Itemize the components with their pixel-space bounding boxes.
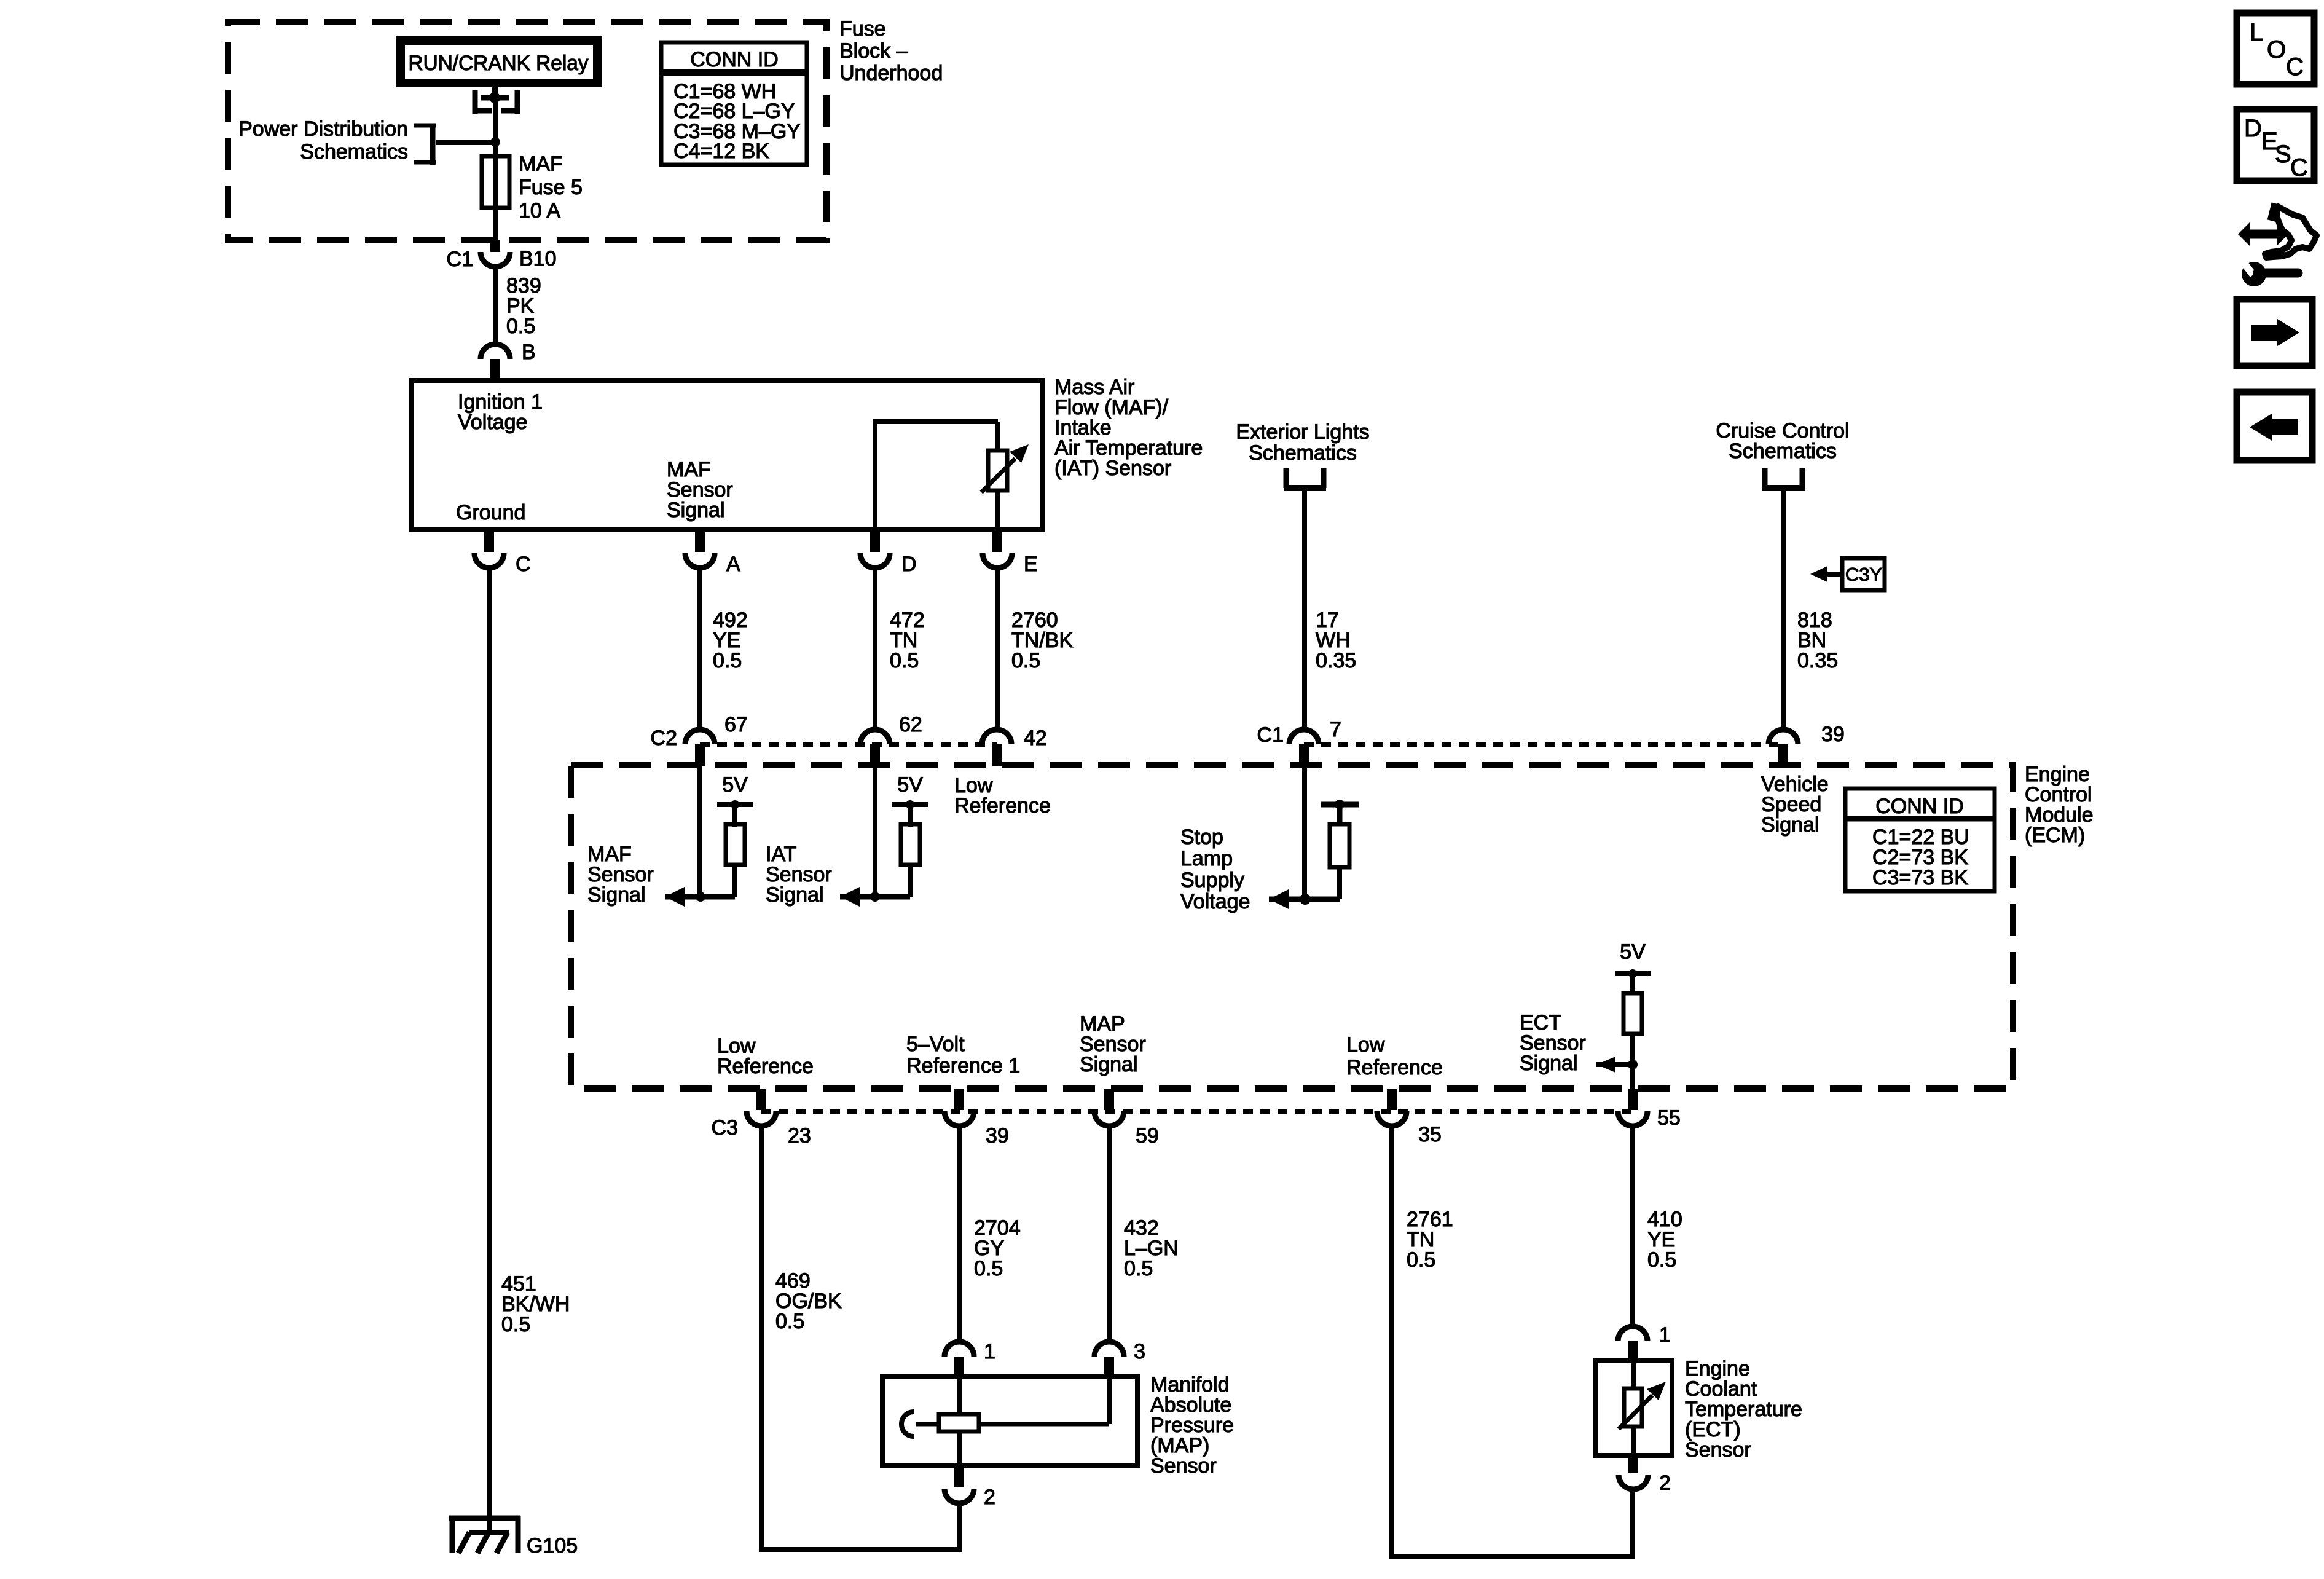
svg-text:Reference: Reference <box>717 1055 814 1078</box>
svg-text:A: A <box>726 553 740 576</box>
connector pin C3 at x=1805 <box>1104 1089 1114 1110</box>
svg-text:67: 67 <box>724 713 748 736</box>
svg-text:42: 42 <box>1024 726 1047 750</box>
connector pin 2 of MAP sensor <box>954 1466 964 1487</box>
svg-text:5V: 5V <box>722 773 748 797</box>
svg-text:C2: C2 <box>651 726 677 750</box>
connector pin 2 of ECT sensor <box>1628 1455 1638 1473</box>
svg-text:35: 35 <box>1418 1123 1442 1146</box>
svg-text:Low: Low <box>1346 1033 1385 1057</box>
thermistor ECT symbol <box>1624 1388 1642 1427</box>
connector pin B of MAF sensor <box>481 344 510 359</box>
connector C1 pin B10 <box>490 240 500 252</box>
icon DESC box <box>2237 109 2314 181</box>
wire IAT sensor signal arrow <box>840 894 910 900</box>
connector pin C3 at x=1239 <box>756 1089 766 1110</box>
svg-text:0.5: 0.5 <box>506 315 535 338</box>
svg-text:Signal: Signal <box>587 883 646 907</box>
svg-text:B10: B10 <box>519 247 557 270</box>
MAF/IAT sensor box <box>412 380 1043 530</box>
wire 818 BN 0.35 <box>1781 488 1786 731</box>
resistor stop lamp pull-up <box>1330 824 1349 867</box>
ground G105 <box>487 1513 492 1534</box>
icon LOC box <box>2237 13 2314 84</box>
wire 451 BK/WH ground wire <box>487 568 492 1518</box>
svg-text:Sensor: Sensor <box>1685 1438 1751 1462</box>
connector pin C3 at x=2265 <box>1387 1089 1397 1110</box>
svg-text:Supply: Supply <box>1180 868 1244 892</box>
svg-text:0.35: 0.35 <box>1316 649 1356 672</box>
svg-text:62: 62 <box>899 713 922 736</box>
connector pin 1 of ECT sensor <box>1618 1326 1647 1341</box>
svg-text:1: 1 <box>984 1340 995 1363</box>
svg-text:S: S <box>2275 141 2291 168</box>
wire 492 YE 0.5 <box>697 568 702 731</box>
svg-text:CONN ID: CONN ID <box>690 48 779 71</box>
svg-text:(ECM): (ECM) <box>2025 824 2085 847</box>
ECM engine control module dashed box <box>571 765 2013 1089</box>
wire ECT sensor signal arrow <box>1628 1060 1638 1069</box>
wire pin 62 into ECM <box>873 765 877 896</box>
icon arrow right box <box>2237 299 2312 366</box>
svg-text:Reference: Reference <box>954 794 1051 817</box>
resistor MAF pull-up <box>726 824 745 865</box>
MAP sensor box <box>957 1376 962 1466</box>
connector pin 3 of MAP sensor <box>1094 1342 1124 1357</box>
svg-text:5V: 5V <box>1620 940 1646 964</box>
pressure port symbol <box>901 1412 914 1436</box>
wire 2761 TN 0.5 low reference loop <box>1392 1125 1633 1556</box>
svg-text:Reference 1: Reference 1 <box>906 1054 1020 1077</box>
svg-text:5–Volt: 5–Volt <box>906 1033 965 1056</box>
relay RUN/CRANK Relay box <box>396 36 602 87</box>
svg-text:E: E <box>1024 553 1038 576</box>
svg-text:39: 39 <box>1821 723 1845 746</box>
svg-text:10 A: 10 A <box>519 199 560 222</box>
svg-text:D: D <box>901 553 917 576</box>
node junction dot <box>490 137 500 147</box>
svg-text:RUN/CRANK Relay: RUN/CRANK Relay <box>409 52 589 75</box>
icon double arrow with part outline and wrench <box>2249 230 2277 239</box>
off-page connector cruise control <box>1762 468 1768 488</box>
connector pin arc at x=2122 <box>1289 730 1319 744</box>
connector line C1 dotted <box>1304 742 1783 747</box>
svg-text:C3=73 BK: C3=73 BK <box>1872 866 1968 889</box>
connector C3Y flag <box>1826 572 1842 577</box>
svg-text:39: 39 <box>986 1124 1009 1148</box>
svg-text:55: 55 <box>1657 1106 1681 1130</box>
wire pin 67 into ECM <box>697 765 702 896</box>
connector pin 1 of MAP sensor <box>944 1342 974 1357</box>
svg-text:5V: 5V <box>897 773 923 797</box>
svg-text:2: 2 <box>984 1486 995 1509</box>
svg-text:D: D <box>2244 115 2262 142</box>
svg-text:Signal: Signal <box>1520 1052 1578 1075</box>
svg-text:0.5: 0.5 <box>713 649 742 672</box>
connector pin arc at x=1424 <box>860 730 890 744</box>
svg-text:0.5: 0.5 <box>1124 1257 1153 1280</box>
svg-text:Signal: Signal <box>766 883 824 907</box>
svg-text:Signal: Signal <box>1761 813 1820 837</box>
svg-text:C3: C3 <box>712 1116 738 1140</box>
svg-text:Stop: Stop <box>1180 825 1223 849</box>
svg-text:59: 59 <box>1136 1124 1159 1148</box>
svg-text:Reference: Reference <box>1346 1056 1443 1079</box>
svg-text:G105: G105 <box>527 1534 578 1557</box>
svg-text:MAF: MAF <box>519 152 563 176</box>
conn id table ECM <box>1845 789 1995 891</box>
svg-text:Lamp: Lamp <box>1180 847 1233 870</box>
svg-text:CONN ID: CONN ID <box>1875 795 1964 818</box>
connector line C3 dotted <box>761 1109 1633 1114</box>
conn id table fuse block <box>661 42 807 165</box>
svg-text:(IAT) Sensor: (IAT) Sensor <box>1054 457 1171 480</box>
svg-text:C1: C1 <box>447 248 473 271</box>
connector line C2 dotted <box>700 742 997 747</box>
svg-text:Block –: Block – <box>839 39 908 63</box>
connector pin C3 at x=1561 <box>954 1089 964 1110</box>
wire 469 OG/BK 0.5 low reference loop <box>761 1125 959 1549</box>
svg-text:O: O <box>2267 36 2286 63</box>
wire IAT loop <box>873 422 877 530</box>
wire 17 WH 0.35 <box>1302 488 1307 731</box>
wire 432 L-GN 0.5 <box>1107 1125 1112 1343</box>
svg-text:0.35: 0.35 <box>1797 649 1838 672</box>
svg-text:0.5: 0.5 <box>1011 649 1040 672</box>
ECT sensor box <box>1631 1360 1636 1455</box>
svg-text:2: 2 <box>1659 1471 1671 1495</box>
svg-text:0.5: 0.5 <box>974 1257 1003 1280</box>
icon arrow left box <box>2237 392 2312 460</box>
off-page connector exterior lights <box>1284 468 1289 488</box>
connector pin D of MAF sensor <box>870 530 880 552</box>
svg-text:L: L <box>2250 19 2263 46</box>
svg-text:C1: C1 <box>1257 723 1284 747</box>
connector pin E of MAF sensor <box>992 530 1002 552</box>
connector pin C of MAF sensor <box>484 530 494 552</box>
wire 410 YE 0.5 <box>1630 1125 1635 1328</box>
svg-text:Fuse: Fuse <box>839 17 886 41</box>
svg-text:Ground: Ground <box>456 501 525 524</box>
svg-text:C: C <box>2286 53 2304 81</box>
wire 2760 TN/BK 0.5 <box>995 568 1000 731</box>
svg-text:Schematics: Schematics <box>1729 439 1837 463</box>
svg-text:Sensor: Sensor <box>1150 1454 1217 1478</box>
svg-text:Schematics: Schematics <box>1249 441 1357 465</box>
svg-text:0.5: 0.5 <box>890 649 919 672</box>
wire stop lamp supply arrow <box>1269 897 1340 902</box>
wire junction to power distribution bracket <box>436 140 495 145</box>
power distribution bracket <box>430 124 436 165</box>
svg-text:C4=12 BK: C4=12 BK <box>673 140 769 163</box>
connector pin A of MAF sensor <box>695 530 705 552</box>
svg-text:Schematics: Schematics <box>300 140 408 163</box>
wire 2704 GY 0.5 <box>957 1125 962 1343</box>
fuse F5 MAF Fuse 5 10A <box>493 143 498 240</box>
svg-text:Voltage: Voltage <box>458 411 527 434</box>
wire relay to junction <box>493 98 498 142</box>
svg-text:0.5: 0.5 <box>1647 1248 1676 1272</box>
svg-text:Voltage: Voltage <box>1180 890 1250 913</box>
MAP sensing element <box>939 1414 979 1431</box>
svg-text:0.5: 0.5 <box>501 1313 530 1336</box>
connector pin arc at x=1622 <box>982 730 1011 744</box>
wire 839 PK 0.5 <box>493 267 498 344</box>
svg-text:1: 1 <box>1659 1323 1671 1347</box>
relay contact symbol <box>492 87 498 97</box>
connector pin arc at x=1139 <box>685 730 715 744</box>
resistor IAT pull-up <box>901 824 920 865</box>
svg-text:Exterior Lights: Exterior Lights <box>1236 420 1369 444</box>
svg-text:3: 3 <box>1134 1340 1145 1363</box>
svg-text:Signal: Signal <box>1080 1053 1138 1076</box>
svg-text:0.5: 0.5 <box>1407 1248 1435 1272</box>
svg-text:23: 23 <box>788 1124 811 1148</box>
thermistor IAT symbol <box>988 451 1007 490</box>
svg-text:Underhood: Underhood <box>839 61 943 85</box>
connector pin arc at x=2902 <box>1769 730 1798 744</box>
svg-text:B: B <box>522 341 536 364</box>
node stop lamp pull-up top <box>1321 802 1359 808</box>
wire MAF sensor signal arrow <box>665 894 735 900</box>
svg-text:Power Distribution: Power Distribution <box>238 117 408 141</box>
connector pin C3 at x=2657 <box>1628 1089 1638 1110</box>
svg-text:0.5: 0.5 <box>775 1310 804 1333</box>
resistor ECT pull-up <box>1623 993 1642 1034</box>
svg-text:C3Y: C3Y <box>1845 564 1882 585</box>
svg-text:Fuse 5: Fuse 5 <box>519 176 583 199</box>
fuse block - underhood dashed box <box>228 22 826 240</box>
svg-text:Signal: Signal <box>667 498 725 522</box>
svg-text:7: 7 <box>1330 718 1341 741</box>
wire pin 7 into ECM <box>1302 765 1307 899</box>
svg-text:C: C <box>516 553 531 576</box>
wire 472 TN 0.5 <box>873 568 877 731</box>
svg-text:C: C <box>2290 154 2308 181</box>
